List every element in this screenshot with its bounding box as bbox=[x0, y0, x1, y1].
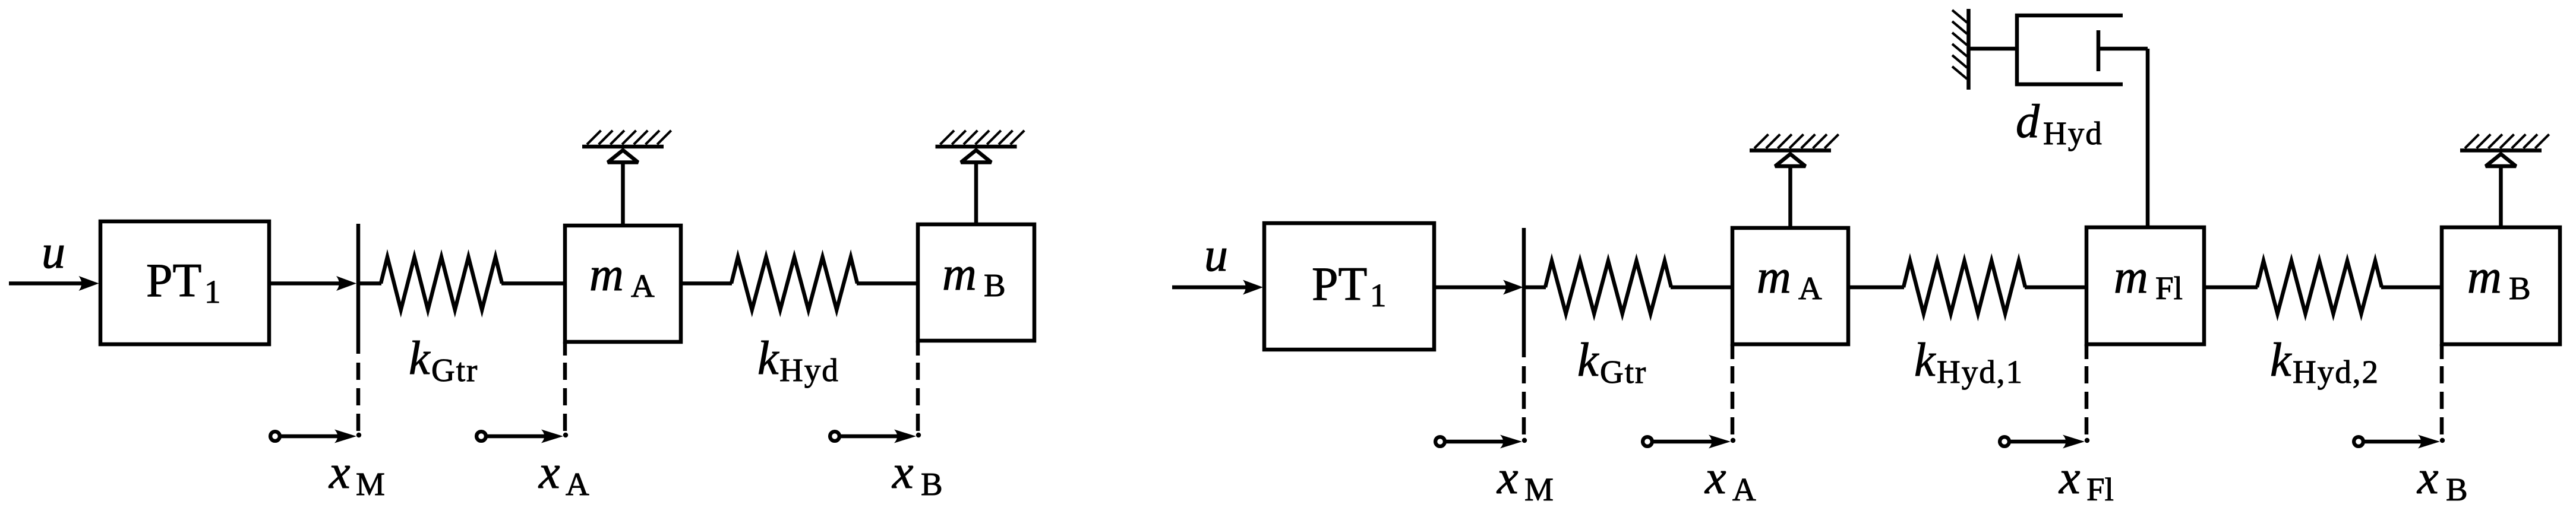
svg-text:d: d bbox=[2016, 96, 2040, 148]
wire: input arrow into PT1 (right) bbox=[1172, 285, 1255, 290]
svg-text:Gtr: Gtr bbox=[1600, 354, 1647, 390]
node xA: mA left edge tail + dashed line (right) bbox=[1731, 344, 1735, 359]
svg-text:x: x bbox=[538, 446, 560, 499]
measurement arrow xM (right) bbox=[1435, 437, 1445, 446]
wire: PT1 output arrow to node xM (left) bbox=[269, 281, 348, 285]
svg-text:A: A bbox=[566, 466, 589, 502]
spring kHyd (left) with leads bbox=[681, 281, 732, 285]
svg-text:k: k bbox=[409, 332, 431, 385]
ground support above mB (left) bbox=[936, 145, 1017, 149]
svg-text:1: 1 bbox=[204, 274, 221, 310]
spring kHyd1 (right) with leads bbox=[1848, 285, 1904, 290]
damper dHyd (cylinder + piston) bbox=[1969, 47, 2018, 51]
node xM vertical line (right) bbox=[1522, 228, 1526, 357]
svg-text:Hyd,1: Hyd,1 bbox=[1937, 354, 2023, 390]
svg-text:m: m bbox=[2467, 251, 2502, 303]
block PT1 (left) bbox=[100, 221, 269, 344]
node xM vertical line (left) bbox=[356, 224, 361, 354]
spring kGtr (left) with leads bbox=[358, 281, 381, 285]
measurement arrow xA (right) bbox=[1643, 437, 1652, 446]
svg-text:Hyd: Hyd bbox=[2043, 115, 2103, 151]
svg-text:x: x bbox=[1704, 452, 1726, 504]
svg-text:Hyd,2: Hyd,2 bbox=[2293, 354, 2379, 390]
svg-text:Gtr: Gtr bbox=[431, 352, 478, 388]
svg-text:k: k bbox=[2270, 334, 2292, 386]
svg-text:B: B bbox=[921, 466, 943, 502]
svg-text:B: B bbox=[984, 267, 1006, 303]
svg-text:x: x bbox=[329, 446, 351, 499]
spring kGtr (right) with leads bbox=[1524, 285, 1546, 290]
svg-text:Fl: Fl bbox=[2086, 471, 2114, 507]
svg-text:A: A bbox=[1798, 270, 1822, 306]
svg-text:1: 1 bbox=[1370, 277, 1387, 313]
svg-text:m: m bbox=[1757, 251, 1791, 303]
svg-text:PT: PT bbox=[1312, 258, 1367, 310]
mass mFl (right) bbox=[2086, 227, 2204, 344]
svg-text:PT: PT bbox=[146, 255, 201, 307]
svg-text:B: B bbox=[2446, 471, 2468, 507]
svg-text:M: M bbox=[356, 466, 385, 502]
wall ground for damper dHyd bbox=[1966, 9, 1971, 90]
svg-text:x: x bbox=[892, 446, 914, 499]
svg-text:x: x bbox=[2059, 452, 2081, 504]
svg-text:m: m bbox=[2114, 251, 2148, 303]
svg-text:B: B bbox=[2509, 270, 2531, 306]
measurement arrow xFl (right) bbox=[2000, 437, 2009, 446]
ground support above mB (right) bbox=[2460, 148, 2542, 153]
svg-text:m: m bbox=[942, 248, 977, 300]
wire: input arrow into PT1 (left) bbox=[9, 281, 90, 285]
wire: PT1 output arrow to node xM (right) bbox=[1434, 285, 1515, 290]
svg-text:M: M bbox=[1524, 471, 1554, 507]
mass mA (right) bbox=[1732, 228, 1848, 344]
svg-text:u: u bbox=[42, 226, 65, 278]
ground support above mA (left) bbox=[582, 145, 664, 149]
wire: damper rod down to mFl bbox=[2146, 49, 2150, 227]
svg-text:u: u bbox=[1204, 229, 1228, 281]
svg-text:A: A bbox=[631, 268, 655, 304]
measurement arrow xB (left) bbox=[830, 431, 839, 441]
svg-text:k: k bbox=[757, 332, 779, 385]
measurement arrow xA (left) bbox=[476, 431, 486, 441]
node xFl: mFl left edge tail + dashed line (right) bbox=[2085, 344, 2089, 359]
spring kHyd2 (right) with leads bbox=[2204, 285, 2258, 290]
mass mB (left) bbox=[918, 224, 1034, 341]
svg-text:Hyd: Hyd bbox=[779, 352, 839, 388]
node xA: mA left edge tail + dashed line (left) bbox=[563, 342, 567, 356]
ground support above mA (right) bbox=[1750, 148, 1831, 153]
block PT1 (right) bbox=[1264, 223, 1434, 350]
svg-text:Fl: Fl bbox=[2155, 270, 2183, 306]
node xB: mB left edge tail + dashed line (right) bbox=[2440, 344, 2444, 359]
node xB: mB left edge tail + dashed line (left) bbox=[916, 341, 920, 356]
svg-text:k: k bbox=[1577, 334, 1599, 386]
svg-text:k: k bbox=[1914, 334, 1936, 386]
svg-text:A: A bbox=[1732, 471, 1756, 507]
svg-text:x: x bbox=[2417, 452, 2439, 504]
svg-text:x: x bbox=[1497, 452, 1519, 504]
measurement arrow xB (right) bbox=[2354, 437, 2363, 446]
mass mB (right) bbox=[2442, 227, 2560, 344]
svg-text:m: m bbox=[589, 249, 624, 301]
measurement arrow xM (left) bbox=[270, 431, 280, 441]
mass mA (left) bbox=[565, 226, 681, 342]
